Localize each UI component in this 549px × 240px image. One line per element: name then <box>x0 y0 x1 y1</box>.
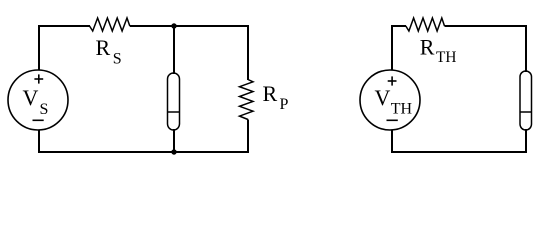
svg-text:R: R <box>263 81 278 106</box>
plus sign <box>388 76 397 85</box>
source V_S <box>8 70 68 130</box>
resistor R_S <box>90 18 130 31</box>
node top junction <box>171 23 176 28</box>
wire top-left segment <box>39 26 90 70</box>
svg-text:S: S <box>113 50 122 67</box>
wire middle branch lower <box>173 129 175 152</box>
plus sign <box>34 74 43 83</box>
wire top-right segment <box>130 26 248 80</box>
svg-text:R: R <box>96 35 111 60</box>
lamp tube (load) <box>168 73 180 130</box>
minus sign <box>33 119 44 121</box>
svg-text:P: P <box>280 96 289 113</box>
wire right-bottom segment <box>392 129 526 152</box>
wire right-bottom segment <box>39 120 248 153</box>
node bottom junction <box>171 149 176 154</box>
wire middle branch upper <box>173 26 175 74</box>
svg-text:V: V <box>375 85 391 110</box>
svg-text:S: S <box>40 101 49 118</box>
svg-text:R: R <box>420 35 435 60</box>
wire top-left segment <box>392 26 406 70</box>
source V_TH <box>360 70 420 130</box>
svg-text:TH: TH <box>436 49 456 66</box>
wire top-right segment <box>445 26 527 72</box>
resistor R_TH <box>406 18 445 31</box>
resistor R_P <box>240 80 254 120</box>
minus sign <box>387 119 398 121</box>
lamp tube (load) <box>520 71 532 130</box>
svg-text:V: V <box>23 85 39 110</box>
svg-text:TH: TH <box>391 101 413 118</box>
